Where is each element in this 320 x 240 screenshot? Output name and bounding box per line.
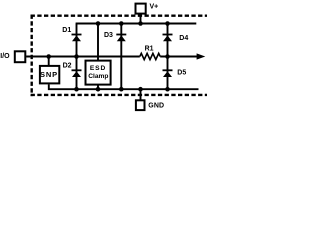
ESD clamp U1 — [86, 61, 111, 85]
wire: GND rail to GND pad — [140, 89, 142, 100]
svg-text:D3: D3 — [104, 32, 113, 39]
junction: node A (I/O line / SNP) — [46, 54, 51, 59]
wire: I/O pad to R1 — [26, 56, 140, 58]
svg-text:V+: V+ — [150, 3, 159, 10]
junction: I/O line / D1 D2 — [74, 54, 79, 59]
resistor R1 — [140, 53, 160, 59]
diode D1 — [72, 34, 82, 42]
wire: ESD clamp bottom branch — [97, 85, 99, 89]
wire: ESD clamp top branch — [97, 24, 99, 61]
svg-text:R1: R1 — [145, 46, 154, 53]
device boundary (dashed) — [31, 15, 207, 97]
V+ rail wire — [76, 23, 197, 25]
junction: V+ rail / D4 — [165, 21, 170, 26]
junction: GND rail / D2 — [74, 87, 79, 92]
junction: internal node / R1 D4 D5 — [165, 54, 170, 59]
SNP box — [40, 66, 59, 84]
GND rail wire — [49, 84, 199, 89]
junction: GND rail / GND pad — [138, 87, 143, 92]
junction: GND rail / ESD clamp — [96, 87, 101, 92]
GND pad — [136, 100, 145, 110]
diode D2 — [72, 69, 82, 77]
wire: D1/D2 branch — [76, 24, 78, 90]
svg-text:SNP: SNP — [40, 70, 58, 79]
svg-text:Clamp: Clamp — [88, 73, 108, 80]
junction: GND rail / D5 — [165, 87, 170, 92]
junction: V+ rail / V+ pad — [138, 21, 143, 26]
diode D3 — [116, 34, 126, 42]
svg-text:D2: D2 — [63, 63, 72, 70]
svg-text:ESD: ESD — [90, 65, 106, 72]
diode D5 — [163, 69, 173, 77]
diode D4 — [163, 34, 173, 42]
svg-text:D1: D1 — [62, 27, 71, 34]
wire: D4/D5 branch — [167, 24, 169, 90]
svg-text:D4: D4 — [179, 35, 188, 42]
wire: node A to SNP box — [48, 57, 50, 66]
arrow to internal circuitry — [197, 53, 206, 59]
svg-text:I/O: I/O — [0, 53, 10, 60]
I/O pad — [15, 51, 25, 62]
V+ pad — [136, 4, 146, 14]
svg-text:D5: D5 — [177, 70, 186, 77]
wire: D3 branch — [120, 24, 122, 90]
wire: V+ pad to V+ rail — [140, 15, 142, 24]
svg-text:GND: GND — [148, 102, 164, 109]
junction: V+ rail / ESD clamp — [96, 21, 101, 26]
wire: R1 to internal circuitry arrow — [160, 56, 198, 58]
junction: V+ rail / D3 — [119, 21, 124, 26]
junction: GND rail / D3 — [119, 87, 124, 92]
